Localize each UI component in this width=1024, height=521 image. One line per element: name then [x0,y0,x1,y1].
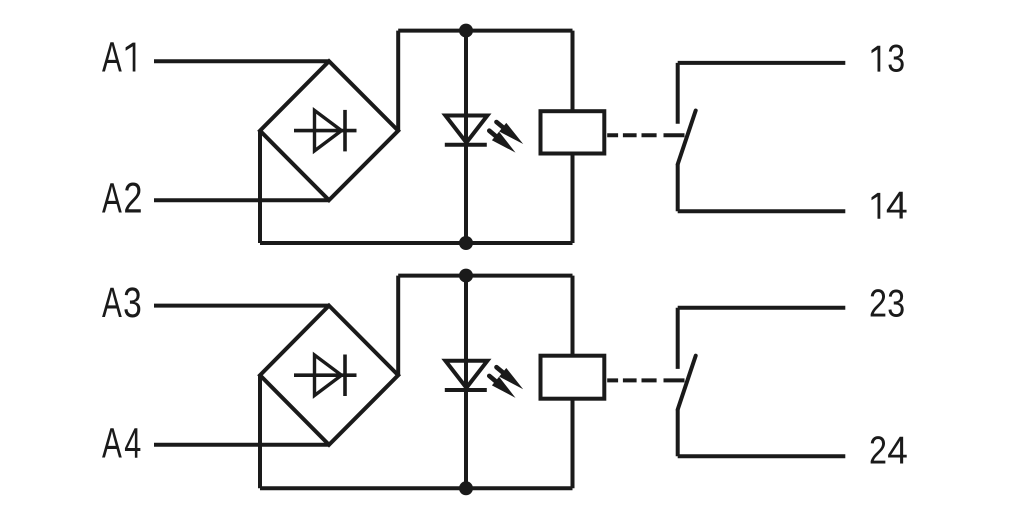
terminal label 13 [872,37,906,80]
wire A2 lead [154,198,329,202]
svg-text:A: A [102,174,122,222]
mechanical link (dashed) coil to contact (ch2) [607,378,684,382]
junction node top rail (ch2) [459,269,473,283]
wire bottom rail (ch2) [260,486,573,490]
mechanical link (dashed) coil to contact [607,133,684,137]
terminal label 24 [869,429,908,472]
svg-text:2: 2 [869,282,887,325]
wire bridge minus output drop [258,131,262,243]
bridge rectifier B2 diode: through line [294,373,357,377]
svg-text:2: 2 [869,429,887,472]
wire bridge plus output riser (ch2) [396,276,400,376]
wire bridge plus output riser [396,31,400,131]
junction node bottom rail (ch2) [459,481,473,495]
wire relay coil branch bottom [571,154,575,244]
contact K1 movable blade [678,111,696,165]
LED D1: cathode bar [445,143,487,147]
contact K2 fixed terminal (top) [676,308,680,369]
wire A4 lead [154,443,329,447]
svg-text:A: A [102,419,122,467]
svg-text:4: 4 [887,429,908,472]
LED D2: cathode bar [445,388,487,392]
wire A3 lead [154,304,329,308]
wire LED branch vertical [464,31,468,243]
wire bottom rail [260,241,573,245]
terminal label 14 [872,185,908,228]
wire top rail (ch2) [398,274,572,278]
wire relay coil branch bottom (ch2) [571,399,575,489]
junction node top rail [459,24,473,38]
bridge rectifier B1 diode: through line [294,129,357,133]
bridge rectifier B2 diode: cathode bar [343,355,347,397]
terminal label A1 [102,33,135,81]
wire relay coil branch top (ch2) [571,276,575,357]
LED D1: light arrow 2 [486,126,519,157]
svg-text:2: 2 [123,175,142,222]
wire top rail [398,29,572,33]
relay coil K2 (rectangle) [541,356,605,399]
svg-text:A: A [102,33,122,81]
relay coil K1 (rectangle) [541,111,605,153]
wire bridge minus output drop (ch2) [258,375,262,488]
svg-text:3: 3 [123,279,142,327]
wire contact 24 horizontal [678,454,846,458]
contact K2 movable blade [678,356,696,410]
contact K1 fixed terminal (top) [676,63,680,124]
bridge rectifier B1 diode: cathode bar [343,110,347,151]
terminal label A3 [102,279,142,327]
svg-text:3: 3 [887,37,905,80]
contact K2 lower terminal [676,410,680,457]
LED D2: light arrow 1 [493,363,527,394]
LED D1: light arrow 1 [493,118,527,149]
svg-text:4: 4 [124,418,141,466]
contact K1 lower terminal [676,164,680,211]
LED D2: light arrow 2 [486,372,519,403]
terminal label A2 [102,174,143,222]
terminal label 23 [869,282,905,325]
wire LED branch vertical (ch2) [464,276,468,489]
terminal label A4 [102,418,141,466]
wire A1 lead [154,59,329,63]
svg-text:4: 4 [886,185,908,228]
LED D2: triangle [445,361,487,388]
junction node bottom rail [459,236,473,250]
bridge rectifier B1 (diamond outline) [260,61,398,200]
LED D1: triangle [445,116,487,143]
wire relay coil branch top [571,31,575,111]
svg-text:A: A [102,279,122,327]
wire contact 23 horizontal [678,306,846,310]
wire contact 14 horizontal [678,209,846,213]
bridge rectifier B2 (diamond outline) [260,306,398,445]
bridge rectifier B1 diode: triangle [315,110,342,150]
svg-text:3: 3 [887,282,905,325]
bridge rectifier B2 diode: triangle [315,355,342,396]
wire contact 13 horizontal [678,61,846,65]
